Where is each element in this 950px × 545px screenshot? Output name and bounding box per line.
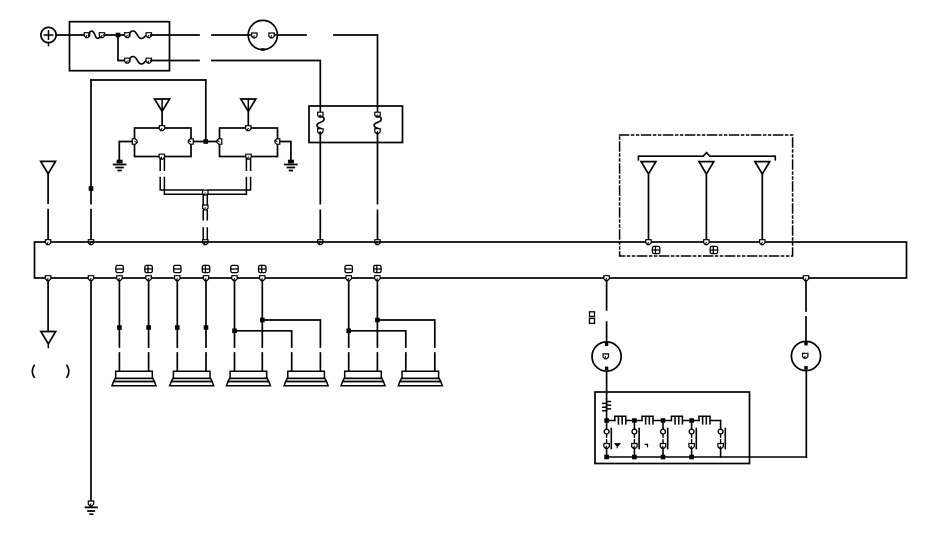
wire F1 to junction xyxy=(104,34,126,36)
terminal plus speaker3 xyxy=(259,265,266,272)
antenna stem xyxy=(47,174,49,240)
fuse box xyxy=(70,22,170,71)
coax right xyxy=(207,159,250,195)
speaker3 wire b xyxy=(261,281,263,372)
speaker3 wire a xyxy=(234,281,236,372)
wire F5 to bus xyxy=(377,133,379,240)
brace over antennas xyxy=(638,153,775,160)
tap node xyxy=(232,329,237,334)
wire rail up to motor right xyxy=(805,371,807,457)
battery positive terminal xyxy=(41,27,56,45)
speaker 1 xyxy=(112,371,156,386)
antenna right xyxy=(241,99,256,126)
antenna amp right box xyxy=(220,128,278,157)
branch to speaker6 b xyxy=(377,320,434,371)
terminal minus speaker5 xyxy=(345,265,352,272)
junction between amps xyxy=(204,139,209,144)
tap node xyxy=(260,318,265,323)
glass antenna 1 xyxy=(641,162,656,240)
wire from switch xyxy=(278,34,307,36)
coax down to bus xyxy=(203,195,207,240)
branch to speaker4 b xyxy=(262,320,320,371)
wire to lower antenna xyxy=(47,281,49,332)
glass antenna 3 xyxy=(755,162,770,240)
pin amp R right xyxy=(275,139,280,144)
feed drop left xyxy=(90,80,92,240)
pin amp R left xyxy=(217,139,222,144)
splice xyxy=(175,325,180,330)
coax left xyxy=(160,159,203,195)
pin speaker2b xyxy=(203,276,208,281)
ground amp left xyxy=(114,160,126,171)
pin bus bottom motor right xyxy=(803,276,808,281)
wire F4 to bus xyxy=(319,133,321,240)
pin speaker3a xyxy=(232,276,237,281)
pin amp L bottom xyxy=(159,154,164,159)
top rail xyxy=(607,420,721,422)
wire between amps xyxy=(191,141,220,143)
fuse box 2 xyxy=(309,106,403,143)
splice xyxy=(146,325,151,330)
antenna top left xyxy=(41,161,56,173)
pin ant1 bus xyxy=(646,240,651,245)
pin antenna bus xyxy=(45,240,50,245)
feed drop right xyxy=(205,80,207,142)
wire F3 out to connector gap xyxy=(151,60,199,62)
antenna left xyxy=(155,99,170,126)
pin bus bottom ground xyxy=(88,276,93,281)
switch leg 1 xyxy=(604,421,611,458)
pin amp R bottom xyxy=(246,154,251,159)
blower motor right xyxy=(791,341,820,370)
wire amp L to ground xyxy=(119,142,132,160)
low icon xyxy=(645,444,647,446)
speaker 4 xyxy=(284,371,328,386)
tap node xyxy=(375,318,380,323)
node rail3 xyxy=(661,418,666,423)
label parens xyxy=(32,365,34,377)
wire to motor left xyxy=(606,281,608,343)
switch leg 2 xyxy=(632,421,639,458)
speaker1 wire a xyxy=(118,281,120,372)
coax inline connector xyxy=(203,205,208,210)
pin bus bottom motor left xyxy=(604,276,609,281)
coil R3 xyxy=(671,416,682,424)
switch leg 4 xyxy=(689,421,696,458)
ground connector xyxy=(88,501,93,506)
pin bus bottom left antenna xyxy=(45,276,50,281)
wire to fuse box 2 right drop xyxy=(334,35,378,106)
coil R1 xyxy=(615,416,626,424)
wire motor to resistor box xyxy=(606,372,608,400)
node rail2 xyxy=(632,418,637,423)
speaker1 wire b xyxy=(148,281,150,372)
node bottom rail3 xyxy=(661,455,666,460)
fan icon xyxy=(615,444,620,448)
pin speaker2a xyxy=(175,276,180,281)
speaker2 wire a xyxy=(176,281,178,372)
wire battery to fuse box xyxy=(56,34,85,36)
pin ant right xyxy=(246,126,251,131)
pin speaker1a xyxy=(117,276,122,281)
branch to speaker6 a xyxy=(349,331,406,371)
speaker 5 xyxy=(341,371,385,386)
coax joint connector xyxy=(203,190,208,195)
pin speaker1b xyxy=(146,276,151,281)
blower resistor box xyxy=(595,392,750,464)
tap node xyxy=(346,329,351,334)
junction node xyxy=(116,33,121,38)
pin amp L left xyxy=(132,139,137,144)
pin F4 bus xyxy=(318,240,323,245)
terminal plus speaker2 xyxy=(202,265,209,272)
node rail4 xyxy=(689,418,694,423)
glass antenna 2 xyxy=(699,162,714,240)
glass antenna module dash-dot box xyxy=(620,135,793,256)
pin F5 bus xyxy=(375,240,380,245)
series resistor xyxy=(603,399,611,421)
ground wire xyxy=(90,281,92,502)
wire junction down xyxy=(118,37,126,61)
fuse F3 xyxy=(125,57,152,64)
pin speaker5a xyxy=(346,276,351,281)
pin ant2 bus xyxy=(704,240,709,245)
node bottom rail4 xyxy=(689,455,694,460)
pin ant3 bus xyxy=(760,240,765,245)
wire amp R to ground xyxy=(280,142,291,160)
pin coax bus xyxy=(203,240,208,245)
terminal minus speaker1 xyxy=(116,265,123,272)
pin speaker5b xyxy=(375,276,380,281)
radio unit bus box xyxy=(35,242,907,278)
node bottom rail1 xyxy=(604,455,609,460)
chassis ground xyxy=(86,507,98,514)
lower antenna xyxy=(41,332,56,348)
terminal minus speaker2 xyxy=(174,265,181,272)
blower motor left xyxy=(592,342,621,371)
ground amp right xyxy=(285,160,297,171)
switch leg 5 xyxy=(718,421,725,458)
antenna amp left box xyxy=(135,128,192,157)
coil R2 xyxy=(642,416,653,424)
node rail1 xyxy=(604,418,609,423)
pin ant left xyxy=(159,126,164,131)
splice xyxy=(204,325,209,330)
speaker 2 xyxy=(170,371,214,386)
fuse F1 xyxy=(84,31,104,38)
terminal ant2 xyxy=(710,246,717,253)
terminal plus speaker5 xyxy=(374,265,381,272)
fuse F4 xyxy=(317,106,324,134)
speaker5 wire b xyxy=(376,281,378,372)
coil R4 xyxy=(699,416,710,424)
bottom rail xyxy=(607,456,807,458)
switch leg 3 xyxy=(660,421,667,458)
speaker 3 xyxy=(226,371,270,386)
branch to speaker4 a xyxy=(235,331,292,371)
terminal plus speaker1 xyxy=(145,265,152,272)
splice node xyxy=(89,186,94,191)
wire to fuse box 2 left drop xyxy=(212,61,320,107)
ignition switch xyxy=(248,20,277,50)
top feed wire xyxy=(91,79,206,81)
wire motor right to bus xyxy=(805,281,807,342)
pin feed left bus xyxy=(88,240,93,245)
wire F2 out to connector gap xyxy=(151,34,199,36)
pin speaker3b xyxy=(260,276,265,281)
speaker 6 xyxy=(398,371,442,386)
connector squares xyxy=(590,312,595,324)
speaker5 wire a xyxy=(348,281,350,372)
wire to ignition switch xyxy=(212,34,249,36)
speaker2 wire b xyxy=(205,281,207,372)
splice xyxy=(117,325,122,330)
pin amp L right xyxy=(188,139,193,144)
node bottom rail2 xyxy=(632,455,637,460)
terminal minus speaker3 xyxy=(231,265,238,272)
fuse F5 xyxy=(374,106,381,134)
fuse F2 xyxy=(125,31,152,38)
terminal ant1 xyxy=(652,246,659,253)
